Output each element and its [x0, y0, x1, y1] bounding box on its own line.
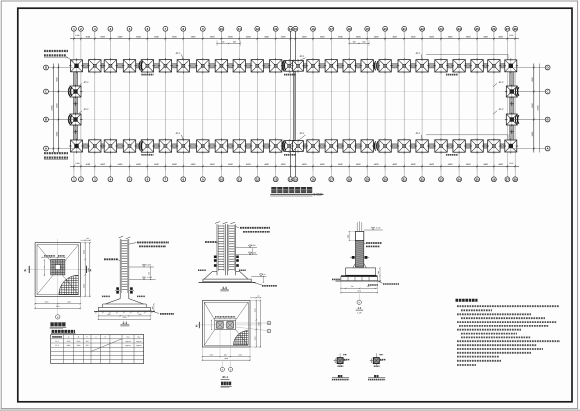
- label JC-2 with leader: [78, 108, 89, 114]
- svg-text:2500: 2500: [67, 340, 71, 343]
- foundation JC-1 bottom row at axis x=257: [250, 138, 265, 153]
- foundation JC-1 bottom row at axis x=313: [305, 138, 320, 153]
- svg-text:1-1: 1-1: [122, 321, 127, 325]
- axis construction lines B and C (horizontal, faint): [48, 92, 545, 120]
- svg-text:D: D: [45, 66, 47, 70]
- detail D4 footing plan JC-1: [196, 295, 262, 347]
- grid bubble 28 bottom: [513, 177, 518, 182]
- detail D2 caption 1-1: [120, 321, 129, 326]
- svg-text:350: 350: [86, 340, 89, 343]
- detail D6 column cross-section: [332, 353, 350, 379]
- left gable wall strip (axis 1): [73, 60, 77, 153]
- foundation JC-1 top row at axis x=441: [433, 58, 448, 73]
- long leader lines to JC-1 labels near right end: [426, 54, 508, 139]
- svg-text:21: 21: [403, 177, 407, 181]
- foundation JC-1 top row at axis x=95: [87, 58, 102, 73]
- foundation JC-1 bottom row at axis x=276: [268, 138, 283, 153]
- grid bubble 21 bottom: [402, 177, 407, 182]
- grid bubble 11 top: [237, 26, 242, 31]
- detail D3 left annotation: [205, 242, 219, 243]
- foundation JC-1 top row at axis x=459: [452, 58, 467, 73]
- svg-text:-0.050: -0.050: [250, 244, 255, 247]
- corner foundation with anchor bolt cluster: [69, 58, 84, 73]
- grid bubble 2 top: [79, 26, 84, 31]
- detail D1 independent footing plan: [27, 239, 92, 314]
- svg-text:JC-1: JC-1: [175, 132, 181, 135]
- svg-text:B: B: [547, 118, 549, 122]
- detail D2 top-right rebar annotation: [129, 242, 169, 246]
- detail D2 footing with steps: [94, 299, 155, 314]
- svg-text:2500: 2500: [87, 268, 90, 272]
- foundation JC-1 top row at axis x=257: [250, 58, 265, 73]
- foundation JC-1 top row at axis x=349: [342, 58, 357, 73]
- detail D3 footing rebar callouts: [198, 269, 246, 271]
- bottom foundation tie-beam strip (axis A wall): [72, 144, 516, 148]
- foundation JC-1 bottom row at expansion joint x=298: [291, 139, 305, 153]
- foundation JC-1 top row at axis x=404: [397, 58, 412, 73]
- svg-text:JC-2: JC-2: [55, 344, 59, 347]
- svg-text:22: 22: [420, 27, 424, 31]
- svg-text:2800: 2800: [67, 344, 71, 347]
- independent footing schedule table title: [51, 331, 76, 333]
- svg-text:900: 900: [221, 40, 224, 43]
- foundation JC-1 top row at expansion joint x=289: [282, 59, 296, 73]
- svg-text:16: 16: [311, 27, 315, 31]
- svg-text:350: 350: [86, 344, 89, 347]
- foundation design notes title: [456, 299, 478, 302]
- foundation JC-1 top row at axis x=147: [140, 58, 155, 73]
- grid bubble 22 bottom: [420, 177, 425, 182]
- grid bubble 10 top: [219, 26, 224, 31]
- detail D4 section mark B left: [196, 322, 200, 328]
- svg-text:16500: 16500: [51, 104, 54, 110]
- grid bubble 1 top: [72, 26, 77, 31]
- grid bubble 18 top: [347, 26, 352, 31]
- svg-text:13: 13: [274, 27, 278, 31]
- svg-text:900: 900: [363, 40, 366, 43]
- svg-text:16500: 16500: [537, 104, 540, 110]
- grid bubble 20 top: [383, 26, 388, 31]
- svg-text:10: 10: [220, 27, 224, 31]
- detail D5 top elevation mark: [364, 227, 383, 230]
- detail D1 rebar quadrant hatch: [58, 275, 78, 295]
- foundation JC-1 bottom row at axis x=477: [470, 138, 485, 153]
- right vertical dimension line: [531, 64, 540, 153]
- grid bubble 3 top: [92, 26, 97, 31]
- foundation JC-1 bottom row at axis x=95: [87, 138, 102, 153]
- detail D4 caption JC-1: [221, 375, 232, 387]
- svg-text:-0.050: -0.050: [146, 264, 151, 267]
- svg-text:950: 950: [139, 313, 142, 316]
- grid bubble A left: [44, 146, 74, 151]
- detail D2 left annotation: [104, 259, 120, 260]
- svg-text:B: B: [196, 325, 198, 328]
- grid bubble A right: [514, 146, 550, 151]
- foundation JC-1 top row at axis x=494: [486, 58, 501, 73]
- svg-text:18: 18: [348, 27, 352, 31]
- grid bubble 7 bottom: [163, 177, 168, 182]
- grid bubble 18 bottom: [347, 177, 352, 182]
- top foundation tie-beam strip (axis D wall): [72, 64, 516, 68]
- svg-text:JC-1: JC-1: [415, 52, 421, 55]
- grid bubble 20 bottom: [383, 177, 388, 182]
- detail D2 column section 1-1: [119, 236, 131, 299]
- detail D2 right-side dim and blinding note: [150, 303, 174, 313]
- svg-text:26: 26: [492, 27, 496, 31]
- grid bubble 8 top: [181, 26, 186, 31]
- svg-text:1050: 1050: [82, 250, 85, 254]
- grid bubble 3 bottom: [92, 177, 97, 182]
- svg-text:14: 14: [289, 27, 293, 31]
- expansion joint axes emphasized: [291, 31, 296, 177]
- svg-text:-1.00: -1.00: [262, 273, 266, 276]
- detail D1 axis bubble below: [56, 315, 60, 319]
- grid bubble 19 top: [365, 26, 370, 31]
- detail D4 top-right mini dim: [250, 295, 261, 299]
- detail D1 right dimension lines: [80, 242, 91, 297]
- grid bubble 21 top: [402, 26, 407, 31]
- detail D5 footing block and slab: [336, 268, 382, 281]
- svg-text:JC-2: JC-2: [498, 81, 504, 84]
- vertical grid axis lines: [74, 31, 515, 177]
- detail D1 small dimension cluster above column: [41, 256, 65, 276]
- label JC-2 with leader: [493, 108, 504, 114]
- svg-text:JC-1: JC-1: [175, 52, 181, 55]
- foundation JC-1 top row at axis x=221: [214, 58, 229, 73]
- foundation JC-1 bottom row at axis x=459: [452, 138, 467, 153]
- detail D4 right dimension lines: [250, 300, 261, 348]
- svg-text:24: 24: [457, 27, 461, 31]
- foundation JC-1 bottom row at axis x=130: [122, 138, 137, 153]
- foundation JC-2 on gable wall: [505, 113, 519, 127]
- foundation JC-1 bottom row at axis x=183: [176, 138, 191, 153]
- foundation JC-1 top row at axis x=203: [195, 58, 210, 73]
- detail D5 wall column footing section: [353, 221, 367, 268]
- svg-text:17: 17: [330, 177, 334, 181]
- svg-text:-0.100: -0.100: [375, 227, 380, 230]
- grid bubble 2 bottom: [79, 177, 84, 182]
- foundation JC-1 bottom row at axis x=385: [378, 138, 393, 153]
- grid bubble D left: [44, 65, 74, 70]
- corner foundation with anchor bolt cluster: [503, 58, 518, 73]
- detail D1 top-right mini dimension: [80, 237, 91, 241]
- grid bubble 10 bottom: [219, 177, 224, 182]
- grid bubble 24 top: [457, 26, 462, 31]
- annotation pumping-unit foundation top-left: [44, 51, 73, 62]
- foundation JC-1 bottom row at axis x=239: [232, 138, 247, 153]
- foundation JC-1 top row at axis x=331: [324, 58, 339, 73]
- label JC-2 with leader: [78, 81, 89, 87]
- svg-text:900: 900: [353, 40, 356, 43]
- detail D2 elevation marks: [129, 264, 156, 281]
- detail D7 column cross-section: [368, 353, 386, 379]
- grid bubble 12 bottom: [255, 177, 260, 182]
- svg-text:JC-2: JC-2: [83, 81, 89, 84]
- svg-text:JC-1: JC-1: [299, 132, 305, 135]
- svg-text:28: 28: [514, 27, 518, 31]
- foundation JC-1 top row at axis x=367: [360, 58, 375, 73]
- column bracing marks in plan: [139, 61, 378, 150]
- svg-text:11: 11: [238, 27, 241, 31]
- foundation JC-1 top row at axis x=165: [158, 58, 173, 73]
- svg-text:As1: As1: [126, 336, 129, 339]
- grid bubble B left: [44, 117, 74, 122]
- svg-text:JC-1: JC-1: [299, 55, 305, 58]
- grid bubble 13 top: [273, 26, 278, 31]
- foundation JC-1 bottom row at axis x=147: [140, 138, 155, 153]
- svg-text:27: 27: [506, 27, 510, 31]
- detail D5 right dims and notes: [368, 267, 399, 285]
- grid bubble 17 top: [329, 26, 334, 31]
- foundation JC-1 bottom row at axis x=349: [342, 138, 357, 153]
- grid bubble 16 top: [311, 26, 316, 31]
- detail D5 axis bubble and caption: [356, 294, 364, 315]
- label JC-1 with leader: [298, 132, 306, 141]
- foundation JC-1 bottom row at axis x=367: [360, 138, 375, 153]
- detail D3 anchor bolts: [214, 256, 239, 267]
- detail D5 right annotation: [364, 243, 382, 246]
- grid bubble 28 top: [513, 26, 518, 31]
- detail D3 blinding layer note: [262, 285, 277, 287]
- svg-text:19: 19: [366, 177, 370, 181]
- detail D1 caption: [50, 322, 67, 328]
- svg-text:13: 13: [274, 177, 278, 181]
- foundation JC-1 bottom row at axis x=441: [433, 138, 448, 153]
- grid bubble 13 bottom: [273, 177, 278, 182]
- foundation JC-1 top row at axis x=313: [305, 58, 320, 73]
- grid bubble 11 bottom: [237, 177, 242, 182]
- foundation JC-1 top row at axis x=239: [232, 58, 247, 73]
- svg-text:14: 14: [289, 177, 293, 181]
- grid bubble 19 bottom: [365, 177, 370, 182]
- svg-text:25: 25: [475, 27, 479, 31]
- svg-text:18: 18: [348, 177, 352, 181]
- svg-text:h: h: [87, 336, 88, 339]
- grid bubble 6 bottom: [145, 177, 150, 182]
- svg-text:1400: 1400: [509, 34, 513, 37]
- svg-text:23: 23: [439, 27, 443, 31]
- grid bubble D right: [514, 65, 550, 70]
- svg-text:17: 17: [330, 27, 334, 31]
- detail D1 bottom dimension lines: [34, 296, 81, 309]
- small rebar callouts under foundations: [141, 75, 458, 155]
- svg-text:15: 15: [294, 27, 298, 31]
- svg-text:23: 23: [439, 177, 443, 181]
- svg-text:JC-1: JC-1: [222, 375, 229, 379]
- grid bubble 17 bottom: [329, 177, 334, 182]
- foundation JC-1 bottom row at axis x=331: [324, 138, 339, 153]
- svg-text:1050: 1050: [67, 301, 71, 304]
- grid bubble 4 top: [108, 26, 113, 31]
- independent footing schedule table: [51, 335, 144, 364]
- detail D3 footing with sloped haunches: [199, 271, 263, 285]
- foundation JC-1 top row at axis x=477: [470, 58, 485, 73]
- grid bubble 27 bottom: [505, 177, 510, 182]
- grid bubble C left: [44, 89, 74, 94]
- grid bubble 23 top: [439, 26, 444, 31]
- svg-text:1400: 1400: [509, 162, 513, 165]
- foundation JC-1 bottom row at axis x=203: [195, 138, 210, 153]
- label JC-1 with leader: [415, 52, 422, 61]
- foundation JC-1 bottom row at expansion joint x=289: [282, 139, 296, 153]
- svg-text:16: 16: [311, 177, 315, 181]
- svg-text:1050: 1050: [82, 284, 85, 288]
- svg-text:JC-1: JC-1: [55, 340, 59, 343]
- foundation JC-1 top row at axis x=422: [415, 58, 430, 73]
- svg-text:28: 28: [514, 177, 518, 181]
- corner foundation with anchor bolt cluster: [69, 139, 84, 154]
- detail D3 caption 3-3: [220, 286, 228, 291]
- detail D5 left soil note: [332, 278, 341, 280]
- top dimension line with bay dimensions: [70, 31, 519, 41]
- svg-text:D: D: [547, 66, 549, 70]
- detail D3 double column section 3-3: [215, 222, 236, 276]
- svg-text:27: 27: [506, 177, 510, 181]
- foundation JC-2 on gable wall: [505, 85, 519, 99]
- detail D4 bottom dimension lines: [202, 330, 251, 362]
- svg-text:450: 450: [148, 272, 151, 275]
- svg-text:As2: As2: [137, 336, 140, 339]
- svg-text:950: 950: [108, 313, 111, 316]
- foundation JC-1 top row at axis x=130: [122, 58, 137, 73]
- svg-text:3-3: 3-3: [222, 286, 227, 290]
- svg-text:1400: 1400: [75, 34, 79, 37]
- svg-text:-0.500: -0.500: [147, 276, 152, 279]
- detail D3 top-right rebar annotation: [236, 226, 270, 232]
- right gable wall strip (axis 28): [510, 60, 514, 153]
- grid bubble C right: [514, 89, 550, 94]
- foundation JC-1 top row at axis x=110: [103, 58, 118, 73]
- foundation JC-1 bottom row at axis x=404: [397, 138, 412, 153]
- svg-text:1400: 1400: [75, 162, 79, 165]
- grid bubble 27 top: [505, 26, 510, 31]
- detail D4 axis bubbles below: [220, 361, 232, 372]
- grid bubble 16 bottom: [311, 177, 316, 182]
- foundation JC-2 on gable wall: [69, 85, 83, 99]
- svg-text:B: B: [45, 118, 47, 122]
- svg-text:JC-2: JC-2: [498, 108, 504, 111]
- foundation JC-1 bottom row at axis x=494: [486, 138, 501, 153]
- expansion joint double wall: [293, 60, 295, 153]
- grid bubble B right: [514, 117, 550, 122]
- svg-text:1800: 1800: [77, 344, 81, 347]
- grid bubble 22 top: [420, 26, 425, 31]
- label JC-2 with leader: [493, 81, 504, 87]
- foundation JC-1 top row at axis x=183: [176, 58, 191, 73]
- grid bubble 26 top: [492, 26, 497, 31]
- svg-text:b: b: [105, 336, 106, 339]
- detail D4 mini dimension cluster above pedestal: [211, 317, 236, 330]
- detail D5 bottom dimensions: [340, 281, 378, 294]
- detail D4 axis bubbles right of pedestal: [236, 321, 271, 333]
- detail D5 left dim of cap: [346, 231, 355, 241]
- grid bubble 5 top: [127, 26, 132, 31]
- detail D1 section arrows A-A: [24, 266, 92, 273]
- label JC-1 with leader: [415, 132, 422, 141]
- svg-text:2200: 2200: [77, 340, 81, 343]
- svg-text:J-1: J-1: [357, 306, 361, 310]
- label JC-1 with leader: [298, 55, 306, 61]
- detail D2 anchor bolts: [115, 287, 134, 293]
- detail D2 bottom dimensions: [98, 311, 151, 320]
- foundation JC-1 bottom row at axis x=422: [415, 138, 430, 153]
- secondary mini dimension near expansion joint: [216, 40, 369, 46]
- svg-text:19: 19: [366, 27, 370, 31]
- grid bubble 4 bottom: [108, 177, 113, 182]
- svg-text:900: 900: [233, 40, 236, 43]
- left vertical dimension lines: [51, 64, 60, 153]
- foundation JC-2 on gable wall: [69, 113, 83, 127]
- plan title: foundation layout plan 1:150: [270, 187, 323, 197]
- svg-text:15: 15: [294, 177, 298, 181]
- grid bubble 1 bottom: [72, 177, 77, 182]
- grid bubble 6 top: [145, 26, 150, 31]
- grid bubble 15 bottom: [293, 177, 298, 182]
- svg-text:20: 20: [383, 27, 387, 31]
- grid bubble 25 bottom: [475, 177, 480, 182]
- svg-text:11: 11: [238, 177, 241, 181]
- svg-text:JC-1: JC-1: [415, 132, 421, 135]
- corner foundation with anchor bolt cluster: [503, 139, 518, 154]
- detail D5 anchor marks mid-shaft: [350, 256, 369, 259]
- grid bubble 23 bottom: [439, 177, 444, 182]
- label JC-1 with leader: [175, 132, 183, 141]
- grid bubble 9 top: [200, 26, 205, 31]
- svg-text:-0.500: -0.500: [251, 251, 256, 254]
- foundation design notes text block: [457, 306, 560, 365]
- foundation JC-1 bottom row at axis x=221: [214, 138, 229, 153]
- svg-text:26: 26: [492, 177, 496, 181]
- grid bubble 5 bottom: [127, 177, 132, 182]
- svg-text:21: 21: [403, 27, 407, 31]
- detail D4 rebar quadrant hatch: [233, 330, 249, 346]
- svg-text:2300: 2300: [123, 316, 127, 319]
- detail D3 elevation marks: [236, 244, 258, 255]
- svg-text:24: 24: [457, 177, 461, 181]
- grid bubble 8 bottom: [181, 177, 186, 182]
- foundation JC-1 bottom row at axis x=165: [158, 138, 173, 153]
- svg-text:2500: 2500: [56, 305, 60, 308]
- foundation JC-1 top row at expansion joint x=298: [291, 59, 305, 73]
- svg-text:10: 10: [220, 177, 224, 181]
- grid bubble 7 top: [163, 26, 168, 31]
- grid bubble 25 top: [475, 26, 480, 31]
- annotation pumping-unit foundation bottom-left: [44, 153, 68, 159]
- svg-text:22: 22: [420, 177, 424, 181]
- bottom dimension line with bay dimensions: [70, 162, 519, 171]
- grid bubble 14 top: [288, 26, 293, 31]
- foundation JC-1 bottom row at axis x=110: [103, 138, 118, 153]
- detail D3 right elevation and dim: [251, 273, 266, 283]
- grid bubble 15 top: [293, 26, 298, 31]
- grid bubble 14 bottom: [288, 177, 293, 182]
- grid bubble 24 bottom: [457, 177, 462, 182]
- svg-text:12: 12: [256, 27, 260, 31]
- svg-text:12: 12: [256, 177, 260, 181]
- svg-text:1050: 1050: [45, 301, 49, 304]
- grid bubble 12 top: [255, 26, 260, 31]
- svg-text:20: 20: [383, 177, 387, 181]
- detail D2 footing rebar callouts: [102, 295, 145, 297]
- grid bubble 9 bottom: [200, 177, 205, 182]
- bracing marks beside JC-2 foundations: [68, 87, 519, 134]
- svg-text:JC-2: JC-2: [83, 108, 89, 111]
- svg-text:25: 25: [475, 177, 479, 181]
- foundation JC-1 top row at axis x=276: [268, 58, 283, 73]
- grid bubble 26 bottom: [492, 177, 497, 182]
- label JC-1 with leader: [175, 52, 183, 61]
- foundation JC-1 top row at axis x=385: [378, 58, 393, 73]
